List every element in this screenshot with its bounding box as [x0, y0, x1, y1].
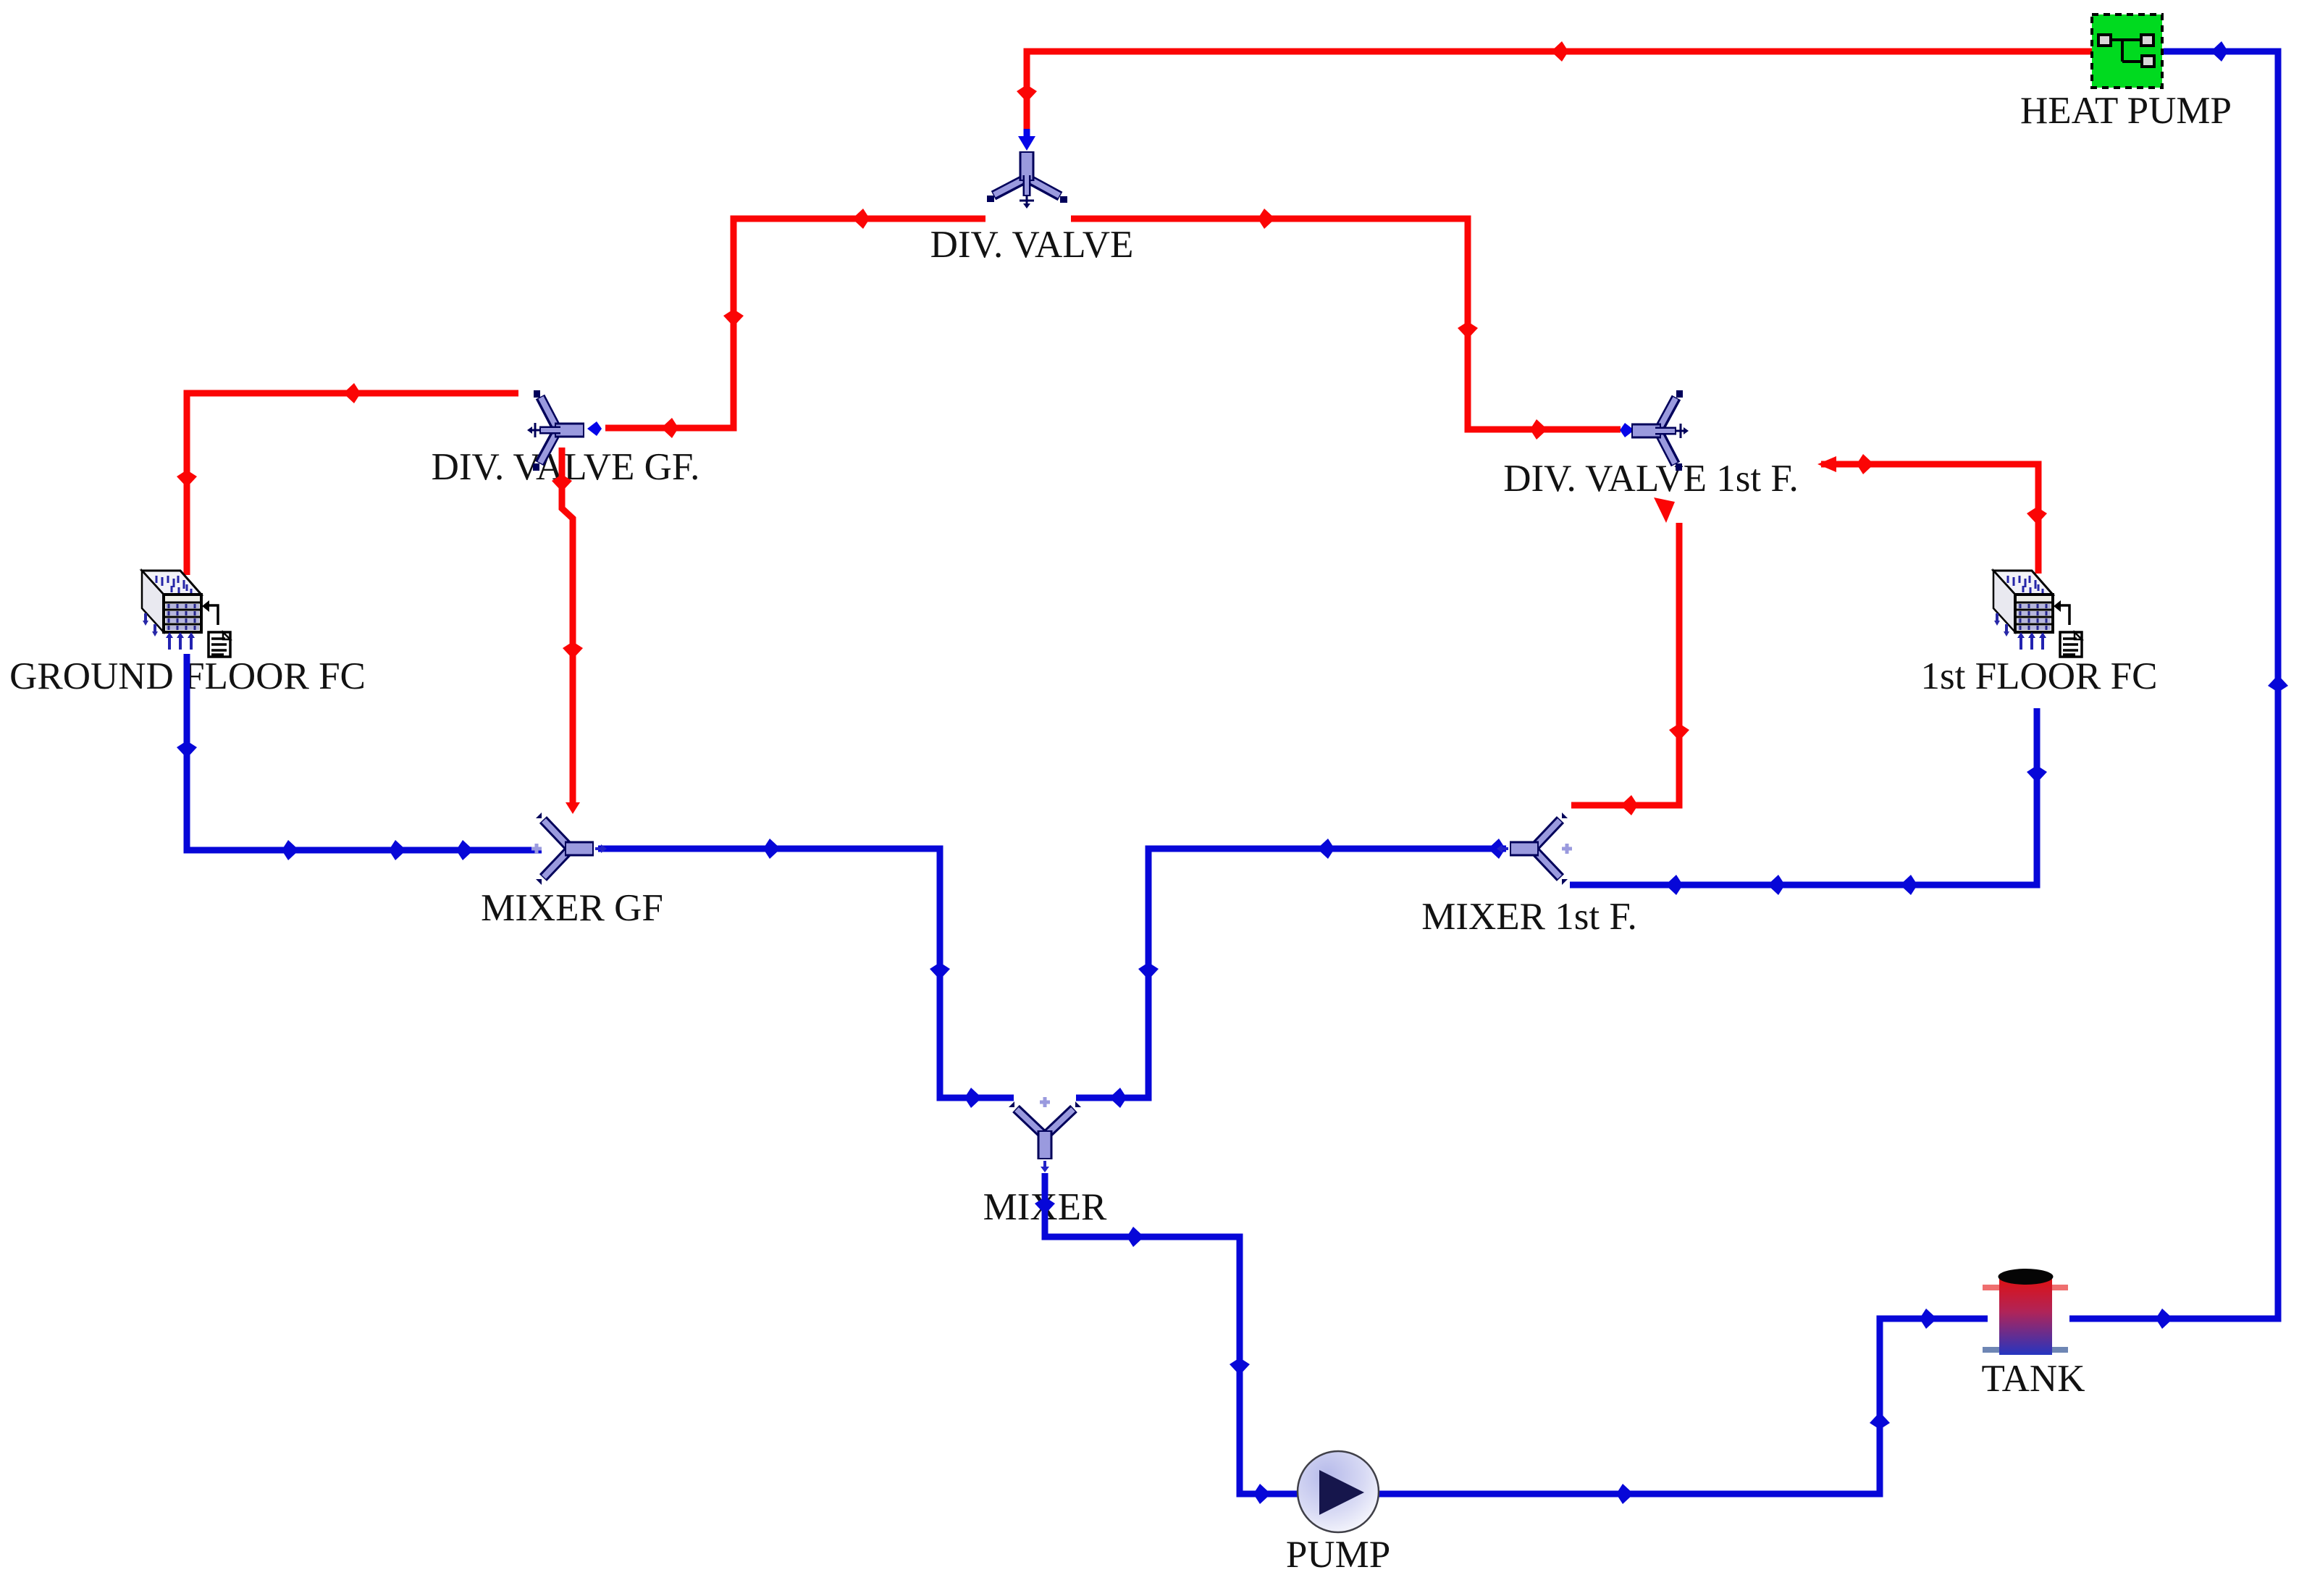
svg-text:1st FLOOR FC: 1st FLOOR FC — [1921, 655, 2158, 697]
svg-text:DIV. VALVE 1st F.: DIV. VALVE 1st F. — [1503, 458, 1799, 500]
svg-text:PUMP: PUMP — [1286, 1534, 1390, 1576]
svg-text:DIV. VALVE: DIV. VALVE — [930, 224, 1134, 266]
svg-text:TANK: TANK — [1982, 1358, 2085, 1400]
svg-text:MIXER 1st F.: MIXER 1st F. — [1421, 896, 1637, 938]
svg-text:HEAT PUMP: HEAT PUMP — [2020, 90, 2232, 132]
svg-text:MIXER GF: MIXER GF — [481, 887, 663, 929]
